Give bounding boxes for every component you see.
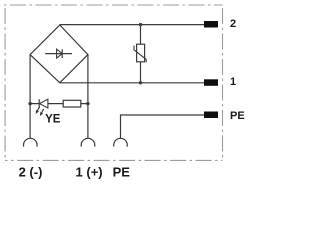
svg-text:1: 1: [230, 76, 236, 88]
enclosure border right edge (dash-dot): [222, 5, 224, 160]
wire: DC minus vertical (left): [29, 55, 31, 139]
terminal 2 pad: [204, 21, 218, 28]
LED emission arrow a: [37, 107, 40, 112]
wire: PE terminal to PE contact: [121, 115, 218, 138]
resistor R1 body: [63, 100, 81, 107]
diode D1 inside rectifier: lead wire: [45, 53, 72, 55]
contact 2 socket symbol: [23, 138, 37, 146]
enclosure border bottom edge (dash-dot): [5, 159, 222, 161]
LED emission arrow b: [41, 109, 44, 114]
varistor RU diagonal stroke: [134, 46, 146, 63]
enclosure border top edge (dash-dot): [4, 4, 223, 6]
enclosure border left edge (dash-dot): [4, 5, 6, 160]
junction: resistor on DC plus: [86, 102, 89, 105]
wire: varistor branch: [140, 25, 142, 83]
LED D2 cathode bar: [38, 99, 40, 108]
svg-text:PE: PE: [113, 165, 131, 180]
diode D1 cathode bar: [61, 49, 63, 58]
svg-text:1 (+): 1 (+): [76, 165, 103, 180]
wire: DC plus vertical (right): [87, 55, 89, 139]
junction: varistor on wire 2: [139, 23, 142, 26]
contact PE socket symbol: [114, 138, 128, 146]
junction: varistor on wire 1: [139, 81, 142, 84]
varistor RU body: [137, 44, 145, 62]
wire: bridge AC bottom node to terminal 1: [60, 82, 217, 84]
svg-text:YE: YE: [45, 114, 61, 126]
svg-text:2 (-): 2 (-): [19, 165, 43, 180]
LED D2 triangle: [40, 99, 48, 108]
terminal 1 pad: [204, 79, 218, 86]
wire: LED branch: [30, 103, 88, 105]
wire: bridge AC top node to terminal 2: [60, 24, 217, 26]
junction: LED branch on DC minus: [28, 102, 31, 105]
terminal PE pad: [204, 112, 218, 119]
svg-text:PE: PE: [230, 110, 245, 122]
svg-text:2: 2: [230, 18, 236, 30]
rectifier bridge B1 outline: [30, 25, 88, 83]
contact 1 socket symbol: [81, 138, 95, 146]
diode D1 triangle: [57, 49, 63, 58]
